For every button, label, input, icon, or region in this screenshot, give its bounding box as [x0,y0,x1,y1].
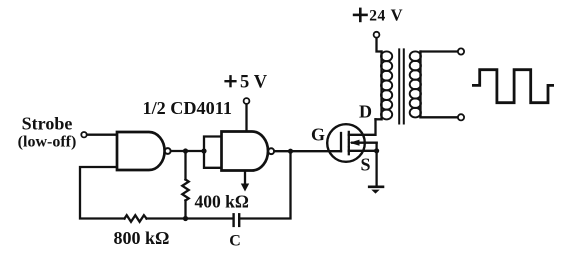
svg-text:V: V [391,6,403,25]
svg-text:400 kΩ: 400 kΩ [195,192,249,212]
svg-text:(low-off): (low-off) [18,134,77,151]
svg-text:24: 24 [369,8,386,25]
svg-text:S: S [360,155,370,175]
svg-text:800 kΩ: 800 kΩ [114,228,170,248]
svg-text:1/2 CD4011: 1/2 CD4011 [143,98,232,118]
svg-text:G: G [311,125,325,145]
svg-text:Strobe: Strobe [22,114,73,134]
svg-text:D: D [359,102,372,122]
svg-text:C: C [229,233,241,250]
svg-text:5: 5 [240,73,249,93]
svg-text:V: V [254,73,268,93]
